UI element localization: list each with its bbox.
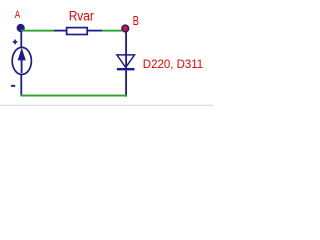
decorative horizontal rule — [0, 105, 213, 106]
bottom wire (green) — [20, 95, 127, 97]
resistor R left lead — [54, 30, 67, 32]
resistor Rvar body — [67, 28, 88, 35]
node B junction dot (outer ring) — [121, 24, 129, 32]
svg-text:Rvar: Rvar — [69, 9, 95, 24]
wire from current source down to bottom wire — [20, 74, 22, 96]
plus sign of current source — [13, 41, 18, 43]
diode anode lead (B down through triangle) — [125, 32, 127, 69]
minus sign of current source — [11, 85, 15, 87]
diode D triangle — [117, 55, 135, 68]
svg-text:A: A — [15, 9, 21, 21]
svg-text:B: B — [133, 14, 139, 28]
node A junction dot — [17, 24, 25, 32]
current source arrow shaft — [21, 60, 23, 74]
current source I1 ellipse body — [12, 47, 31, 74]
wire from A dot down to current source — [20, 31, 22, 48]
wire resistor to B (green) — [102, 30, 122, 32]
current source arrow head — [18, 48, 26, 61]
diode cathode lead down to bottom wire — [125, 70, 127, 96]
resistor R right lead — [88, 30, 103, 32]
node B junction dot (red center) — [123, 26, 128, 31]
wire A to resistor (green) — [21, 30, 54, 32]
diode cathode bar — [117, 68, 135, 70]
svg-text:D220, D311: D220, D311 — [143, 59, 203, 71]
